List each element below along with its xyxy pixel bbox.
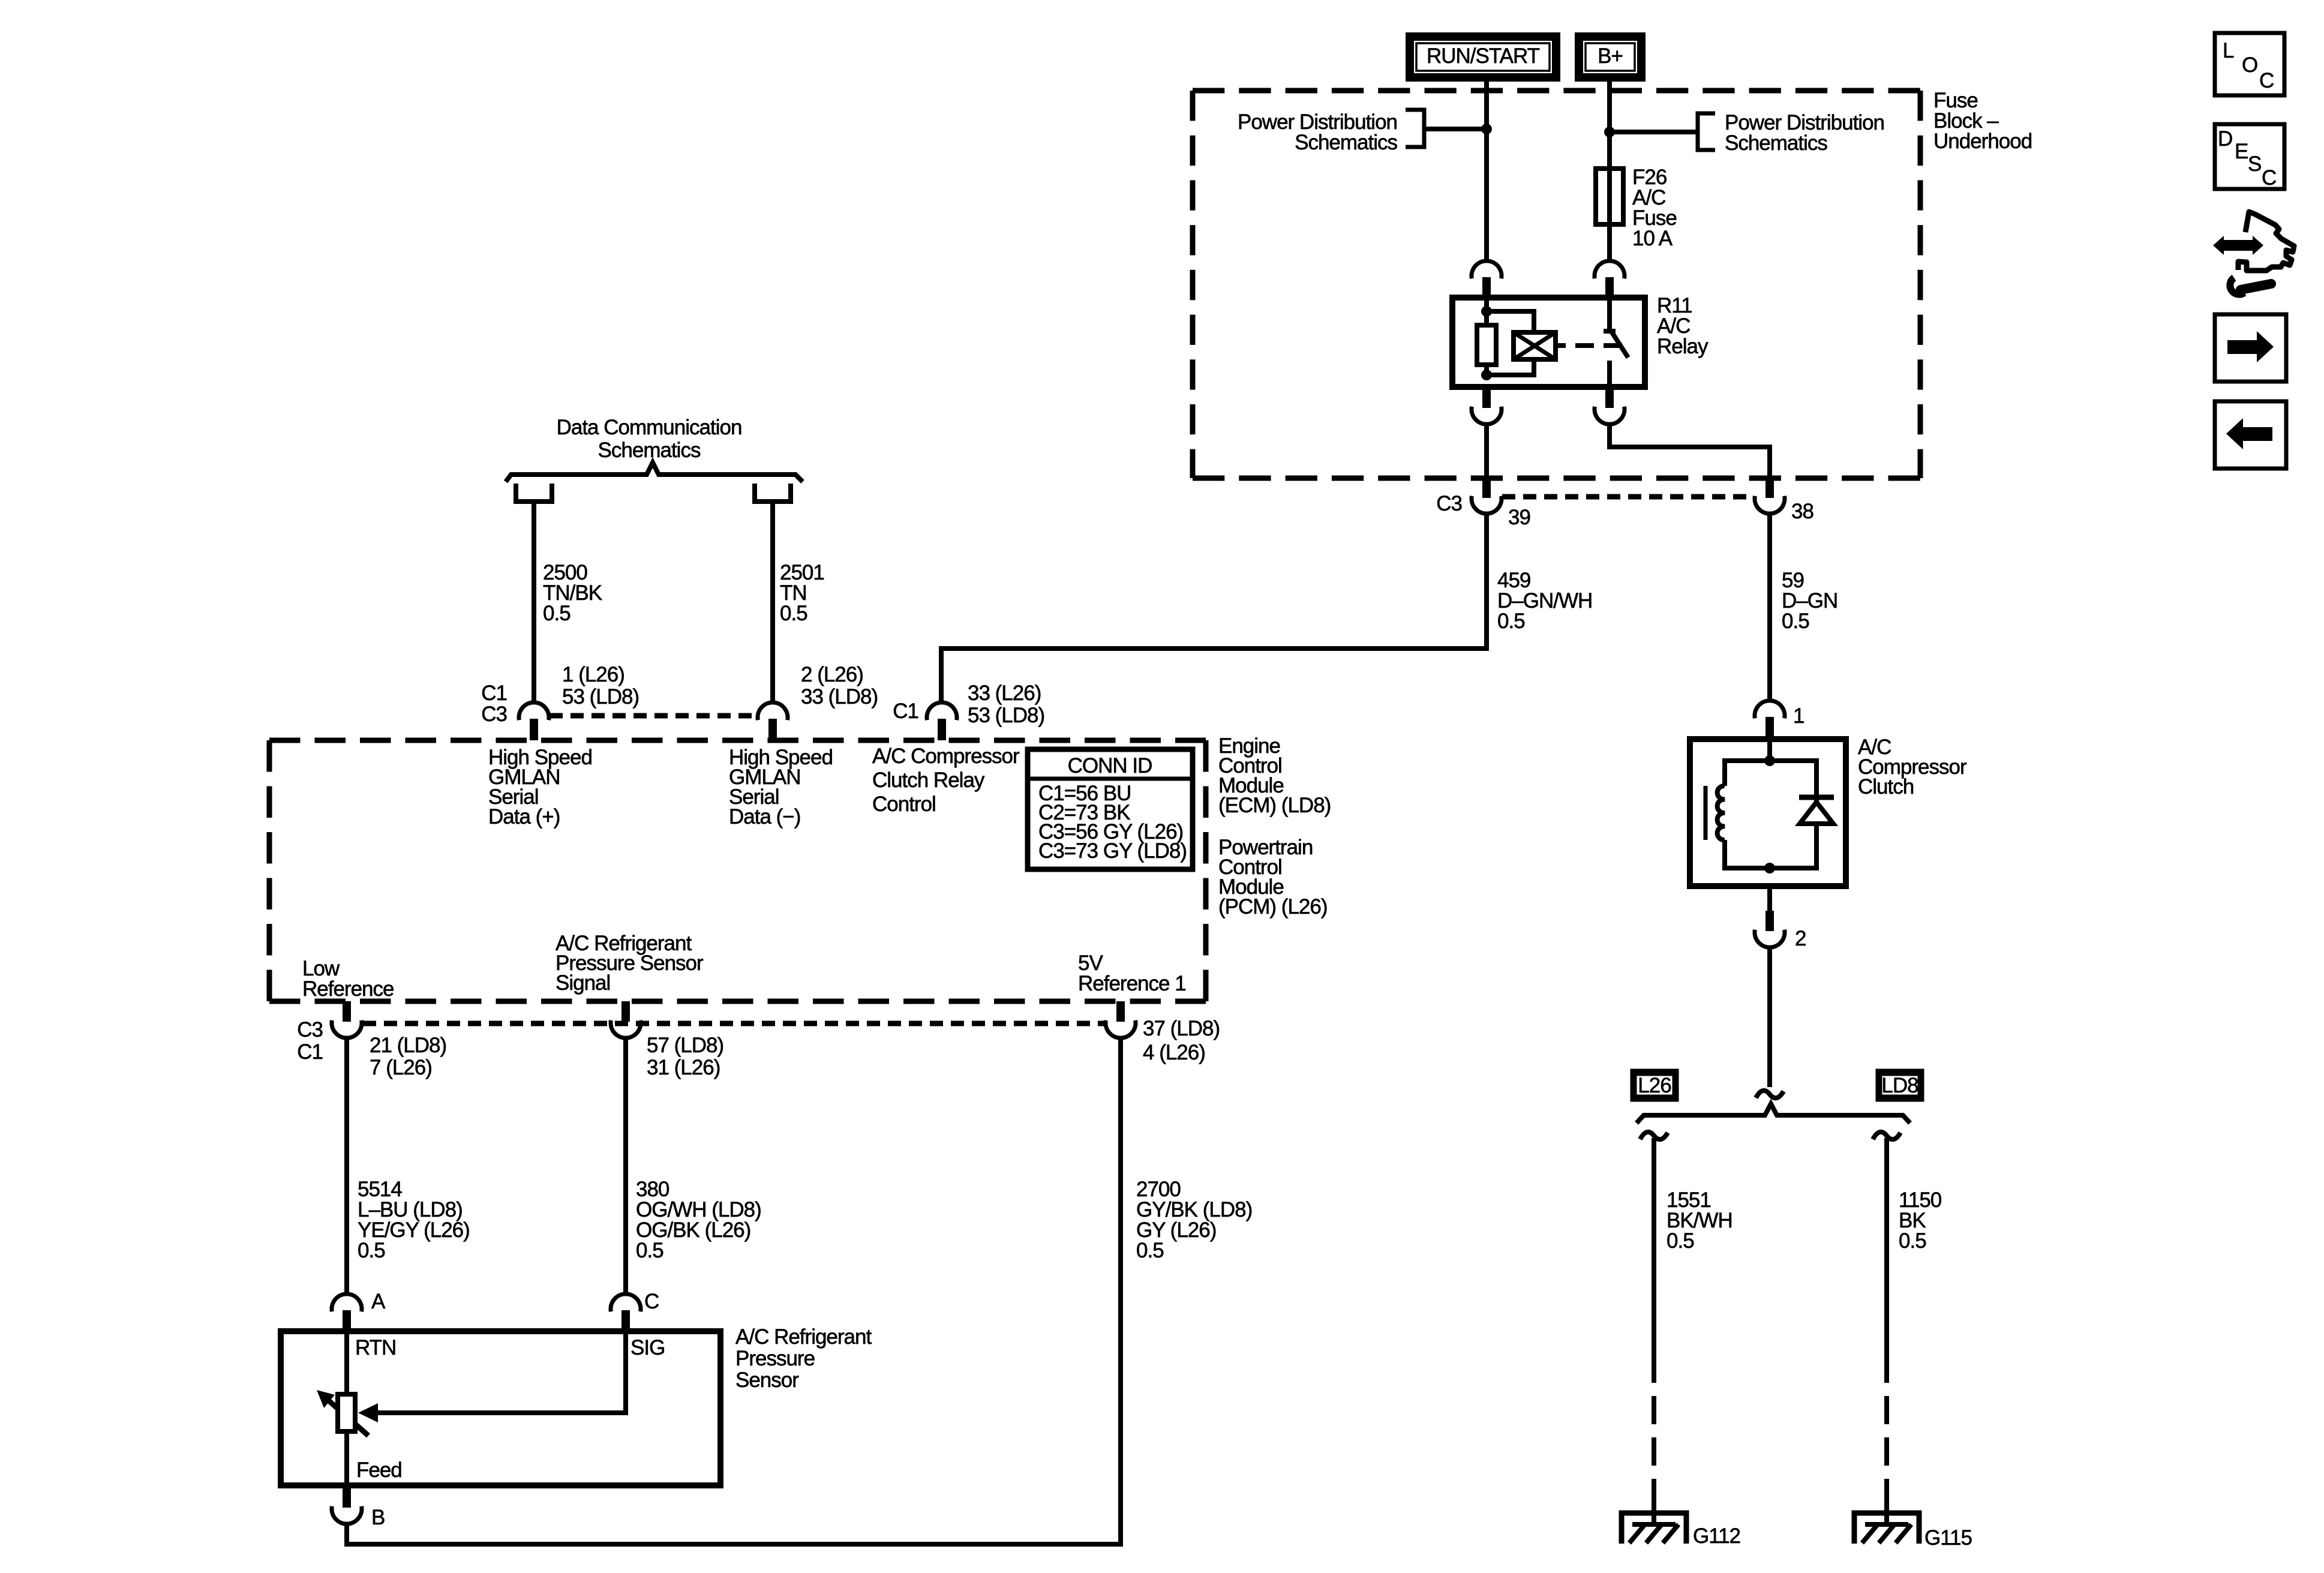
- clutch coil windings: [1718, 786, 1725, 840]
- label 380 OG/WH (LD8) OG/BK (L26) 0.5: [636, 1178, 761, 1262]
- keyword box L26: [1633, 1071, 1676, 1099]
- svg-text:C3: C3: [481, 703, 507, 726]
- junction node on B+ wire: [1604, 127, 1615, 137]
- svg-text:S: S: [2248, 152, 2261, 176]
- wire 5514: [344, 1038, 349, 1294]
- reference bracket right Power Distribution: [1610, 113, 1715, 150]
- keyword box LD8: [1878, 1071, 1921, 1099]
- svg-text:RUN/START: RUN/START: [1427, 44, 1540, 68]
- connector ECM pressure signal out: [611, 1001, 641, 1038]
- keyword box RUN/START: [1410, 37, 1556, 77]
- svg-text:0.5: 0.5: [358, 1239, 385, 1262]
- wire 1150 BK: [1884, 1138, 1889, 1526]
- svg-text:B: B: [371, 1506, 385, 1529]
- wire 2501 TN: [770, 502, 775, 703]
- relay switch fixed contact: [1604, 298, 1616, 331]
- icon wrench: [2230, 278, 2271, 295]
- svg-text:21 (LD8): 21 (LD8): [370, 1034, 446, 1057]
- label C1 C3: [481, 682, 507, 726]
- svg-text:A/C Compressor: A/C Compressor: [872, 745, 1020, 768]
- svg-text:C3: C3: [1436, 492, 1462, 515]
- svg-text:39: 39: [1508, 506, 1530, 529]
- wire break tilde: [1756, 1091, 1783, 1098]
- svg-text:Data (−): Data (−): [729, 805, 800, 828]
- icon double arrow: [2213, 236, 2263, 255]
- svg-text:38: 38: [1791, 500, 1813, 523]
- label F26 A/C Fuse 10 A: [1632, 166, 1677, 250]
- svg-text:C3=73 GY (LD8): C3=73 GY (LD8): [1038, 839, 1187, 863]
- connector ECM GMLAN data minus: [758, 703, 788, 740]
- clutch coil core bar: [1704, 786, 1708, 840]
- svg-text:33 (LD8): 33 (LD8): [801, 685, 878, 709]
- svg-text:(PCM) (L26): (PCM) (L26): [1218, 895, 1328, 918]
- dotted connector line ECM top: [550, 713, 757, 719]
- svg-text:C: C: [644, 1290, 659, 1313]
- svg-text:L26: L26: [1638, 1074, 1671, 1097]
- svg-text:G115: G115: [1924, 1526, 1972, 1550]
- wire RUN/START ignition voltage: [1484, 82, 1489, 262]
- svg-text:0.5: 0.5: [636, 1239, 663, 1262]
- clutch entry wire: [1767, 739, 1772, 761]
- arrowhead into potentiometer: [358, 1403, 378, 1422]
- svg-text:Clutch: Clutch: [1858, 775, 1914, 798]
- svg-text:31 (L26): 31 (L26): [647, 1056, 720, 1079]
- dotted connector line ECM bottom: [363, 1021, 1104, 1026]
- label 1551 BK/WH 0.5: [1667, 1188, 1733, 1253]
- relay switch output stub: [1607, 361, 1612, 387]
- potentiometer element: [317, 1390, 368, 1436]
- icon box DESC: [2215, 124, 2284, 190]
- wire 1551 BK/WH: [1652, 1138, 1656, 1526]
- svg-text:C1: C1: [893, 700, 918, 723]
- svg-text:D: D: [2218, 127, 2232, 151]
- label 59 D-GN 0.5: [1782, 569, 1837, 633]
- svg-text:Data Communication: Data Communication: [557, 416, 742, 439]
- ground G112: [1622, 1513, 1686, 1544]
- junction node clutch bottom: [1764, 863, 1775, 873]
- brace splitting ground wires: [1637, 1104, 1910, 1123]
- connector clutch pin 1: [1755, 701, 1785, 737]
- clutch coil loop: [1725, 761, 1816, 868]
- svg-text:RTN: RTN: [355, 1336, 396, 1359]
- label 5514 L-BU (LD8) YE/GY (L26) 0.5: [358, 1178, 470, 1262]
- junction node clutch top: [1764, 755, 1775, 766]
- label 21 (LD8) 7 (L26): [370, 1034, 446, 1079]
- svg-text:1: 1: [1793, 704, 1804, 728]
- svg-text:Pressure: Pressure: [735, 1347, 815, 1370]
- in-line connector pin 38: [1755, 478, 1785, 514]
- label 5V Reference 1: [1078, 951, 1186, 995]
- off-page stub wire 2501: [755, 484, 791, 502]
- svg-text:Reference 1: Reference 1: [1078, 972, 1186, 995]
- CONN ID table: [1028, 749, 1193, 869]
- label 2500 TN/BK 0.5: [543, 561, 602, 625]
- svg-text:Relay: Relay: [1657, 335, 1709, 358]
- relay coil loop wire: [1487, 311, 1534, 375]
- label 1 (L26) 53 (LD8): [562, 663, 639, 709]
- svg-text:1 (L26): 1 (L26): [562, 663, 624, 686]
- svg-text:(ECM) (LD8): (ECM) (LD8): [1218, 794, 1331, 817]
- label 37 (LD8) 4 (L26): [1143, 1017, 1220, 1064]
- wire 2500 TN/BK: [532, 502, 536, 703]
- svg-text:C1: C1: [481, 682, 507, 705]
- svg-text:4 (L26): 4 (L26): [1143, 1041, 1205, 1064]
- svg-text:Control: Control: [872, 792, 936, 816]
- svg-text:0.5: 0.5: [543, 602, 571, 625]
- label Fuse Block - Underhood: [1933, 89, 2032, 153]
- svg-text:Underhood: Underhood: [1933, 130, 2032, 153]
- connector sensor pin B: [332, 1488, 362, 1524]
- fuse block underhood dashed box: [1193, 91, 1920, 478]
- label Power Distribution Schematics (left): [1238, 110, 1397, 154]
- svg-text:2 (L26): 2 (L26): [801, 663, 863, 686]
- connector sensor pin A: [332, 1294, 362, 1329]
- relay coil branch wire: [1484, 298, 1489, 375]
- svg-text:Schematics: Schematics: [1725, 131, 1827, 155]
- wire 59 lower to clutch: [1767, 514, 1772, 701]
- clutch diode: [1799, 797, 1834, 824]
- icon vehicle outline: [2238, 212, 2294, 271]
- svg-text:Reference: Reference: [302, 977, 394, 1001]
- icon box arrow right: [2215, 314, 2286, 382]
- svg-text:CONN ID: CONN ID: [1068, 754, 1152, 778]
- A/C refrigerant pressure sensor box: [281, 1331, 720, 1485]
- label 459 D-GN/WH 0.5: [1497, 569, 1592, 633]
- wire sensor B feed down: [344, 1523, 349, 1542]
- tilde wire start L26 branch: [1640, 1132, 1668, 1139]
- label 2700 GY/BK (LD8) GY (L26) 0.5: [1136, 1178, 1252, 1262]
- wire clutch ground lead: [1767, 946, 1772, 1087]
- ground G115: [1854, 1513, 1919, 1544]
- wire 2700: [347, 1038, 1121, 1544]
- svg-text:57 (LD8): 57 (LD8): [647, 1034, 723, 1057]
- svg-text:B+: B+: [1598, 44, 1623, 68]
- relay R11 box: [1452, 298, 1645, 387]
- label 2 (L26) 33 (LD8): [801, 663, 878, 709]
- label R11 A/C Relay: [1657, 294, 1709, 358]
- junction node on RUN/START wire: [1481, 124, 1492, 134]
- ECM/PCM dashed box: [269, 740, 1206, 1001]
- wire 459 vertical: [941, 514, 1487, 703]
- wire RTN inside sensor: [344, 1329, 349, 1398]
- svg-text:C1: C1: [297, 1040, 323, 1064]
- label 33 (L26) 53 (LD8): [968, 682, 1044, 727]
- svg-text:7 (L26): 7 (L26): [370, 1056, 432, 1079]
- connector arc into relay pin 86: [1472, 261, 1502, 295]
- svg-text:A: A: [371, 1290, 386, 1313]
- svg-text:Sensor: Sensor: [735, 1368, 799, 1392]
- A/C compressor clutch box: [1690, 739, 1846, 886]
- connector arc into relay pin 85: [1595, 261, 1625, 295]
- svg-text:33 (L26): 33 (L26): [968, 682, 1041, 705]
- fuse F26: [1596, 169, 1623, 224]
- label C3 C1: [297, 1018, 323, 1064]
- junction node coil top: [1481, 306, 1492, 317]
- relay switch blade: [1612, 332, 1628, 358]
- wire relay output to connector C3-39: [1484, 423, 1489, 479]
- svg-text:C3: C3: [297, 1018, 323, 1041]
- label 2501 TN 0.5: [780, 561, 824, 625]
- in-line connector C3 pin 39: [1472, 478, 1502, 514]
- label Powertrain Control Module (PCM) (L26): [1218, 836, 1328, 918]
- svg-text:SIG: SIG: [630, 1336, 665, 1359]
- label 57 (LD8) 31 (L26): [647, 1034, 723, 1079]
- svg-text:Signal: Signal: [556, 971, 610, 995]
- label A/C Compressor Clutch: [1858, 736, 1967, 798]
- label Engine Control Module (ECM) (LD8): [1218, 734, 1331, 817]
- icon box arrow left: [2215, 401, 2286, 469]
- label Data Communication Schematics: [557, 416, 742, 462]
- svg-text:L: L: [2223, 39, 2234, 62]
- svg-text:E: E: [2235, 140, 2248, 163]
- icon box LOC: [2215, 33, 2284, 95]
- relay solenoid X-box: [1514, 332, 1566, 359]
- label A/C Refrigerant Pressure Sensor Signal: [556, 932, 704, 995]
- connector ECM low reference out: [332, 1001, 362, 1038]
- svg-text:37 (LD8): 37 (LD8): [1143, 1017, 1220, 1040]
- svg-text:0.5: 0.5: [1136, 1239, 1164, 1262]
- svg-text:G112: G112: [1693, 1524, 1740, 1548]
- svg-text:10 A: 10 A: [1632, 227, 1673, 250]
- label High Speed GMLAN Serial Data (+): [488, 746, 592, 828]
- svg-text:C: C: [2259, 69, 2274, 92]
- svg-text:Schematics: Schematics: [1295, 131, 1397, 154]
- svg-text:0.5: 0.5: [1782, 610, 1809, 633]
- connector arc out of relay pin 30 (right): [1595, 389, 1625, 424]
- svg-text:0.5: 0.5: [1667, 1229, 1694, 1253]
- svg-text:53 (LD8): 53 (LD8): [562, 685, 639, 709]
- off-page stub wire 2500: [516, 484, 552, 502]
- wire 380: [623, 1038, 628, 1294]
- svg-text:0.5: 0.5: [1497, 610, 1525, 633]
- connector arc out of relay pin 87 (left): [1472, 389, 1502, 424]
- svg-text:0.5: 0.5: [1899, 1229, 1926, 1253]
- label 1150 BK 0.5: [1899, 1188, 1942, 1253]
- svg-text:C: C: [2262, 166, 2276, 190]
- svg-text:0.5: 0.5: [780, 602, 807, 625]
- connector sensor pin C: [611, 1294, 641, 1329]
- wire SIG inside sensor: [377, 1329, 626, 1413]
- label A/C Compressor Clutch Relay Control: [872, 745, 1020, 816]
- label Power Distribution Schematics (right): [1725, 111, 1884, 155]
- svg-text:53 (LD8): 53 (LD8): [968, 704, 1044, 727]
- label Low Reference: [302, 957, 394, 1001]
- label A/C Refrigerant Pressure Sensor: [735, 1325, 872, 1392]
- relay actuator dashed link: [1575, 343, 1622, 348]
- brace over data communication wires: [506, 463, 803, 482]
- reference bracket left Power Distribution: [1406, 110, 1487, 147]
- svg-text:Schematics: Schematics: [598, 439, 701, 462]
- connector clutch pin 2: [1755, 911, 1785, 947]
- svg-text:2: 2: [1795, 927, 1806, 950]
- connector ECM C1/C3 GMLAN data plus: [519, 703, 549, 740]
- junction node coil bottom: [1481, 370, 1492, 380]
- connector ECM 5V reference out: [1106, 1001, 1136, 1038]
- svg-text:LD8: LD8: [1881, 1074, 1918, 1097]
- keyword box B+: [1579, 37, 1641, 77]
- label High Speed GMLAN Serial Data (-): [729, 746, 833, 828]
- wire relay output to connector 38: [1610, 423, 1770, 479]
- svg-text:O: O: [2242, 53, 2257, 77]
- wire Feed inside sensor: [344, 1429, 349, 1488]
- svg-text:A/C Refrigerant: A/C Refrigerant: [735, 1325, 872, 1349]
- svg-text:Data (+): Data (+): [488, 805, 560, 828]
- svg-text:Feed: Feed: [356, 1458, 402, 1482]
- resistor inside relay: [1477, 325, 1496, 365]
- tilde wire start LD8 branch: [1873, 1132, 1900, 1139]
- dotted connector line C3: [1502, 494, 1754, 500]
- clutch exit wire: [1767, 886, 1772, 911]
- wire 59 vertical: [1767, 514, 1772, 701]
- connector ECM C1 clutch relay control: [927, 703, 957, 740]
- wire B+ battery voltage: [1607, 82, 1612, 262]
- svg-text:Clutch Relay: Clutch Relay: [872, 769, 985, 792]
